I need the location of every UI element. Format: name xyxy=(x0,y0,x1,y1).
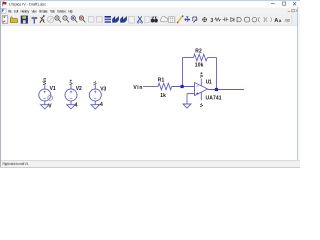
svg-text:File: File xyxy=(8,9,12,13)
svg-text:Help: Help xyxy=(68,9,72,13)
svg-text:V-: V- xyxy=(93,80,98,85)
svg-text:4: 4 xyxy=(75,102,78,108)
svg-text:V+: V+ xyxy=(68,79,73,85)
svg-text:U1: U1 xyxy=(206,79,212,85)
svg-text:V1: V1 xyxy=(50,86,56,92)
svg-text:View: View xyxy=(32,9,38,13)
svg-text:Right click to edit V1: Right click to edit V1 xyxy=(3,162,29,166)
svg-text:Hierarchy: Hierarchy xyxy=(21,9,30,13)
svg-text:10k: 10k xyxy=(195,62,204,68)
svg-text:Vin: Vin xyxy=(133,85,142,91)
svg-text:Simulate: Simulate xyxy=(39,9,48,13)
svg-text:V2: V2 xyxy=(76,86,82,92)
svg-text:V+: V+ xyxy=(199,72,204,78)
svg-text:R2: R2 xyxy=(195,48,202,54)
svg-text:1k: 1k xyxy=(160,93,166,99)
svg-text:V-: V- xyxy=(199,102,204,107)
svg-text:Vin: Vin xyxy=(42,78,47,85)
svg-text:a: a xyxy=(279,18,282,23)
svg-text:LTspice IV - Draft1.asc: LTspice IV - Draft1.asc xyxy=(9,1,46,6)
svg-text:Edit: Edit xyxy=(14,9,18,13)
svg-text:R1: R1 xyxy=(158,78,165,84)
svg-text:.op: .op xyxy=(284,17,290,22)
svg-text:-4: -4 xyxy=(98,102,103,108)
svg-text:3: 3 xyxy=(210,18,213,24)
svg-text:Window: Window xyxy=(57,9,66,13)
svg-text:Tools: Tools xyxy=(50,9,55,13)
svg-text:V3: V3 xyxy=(100,86,106,92)
svg-text:UA741: UA741 xyxy=(206,96,222,102)
